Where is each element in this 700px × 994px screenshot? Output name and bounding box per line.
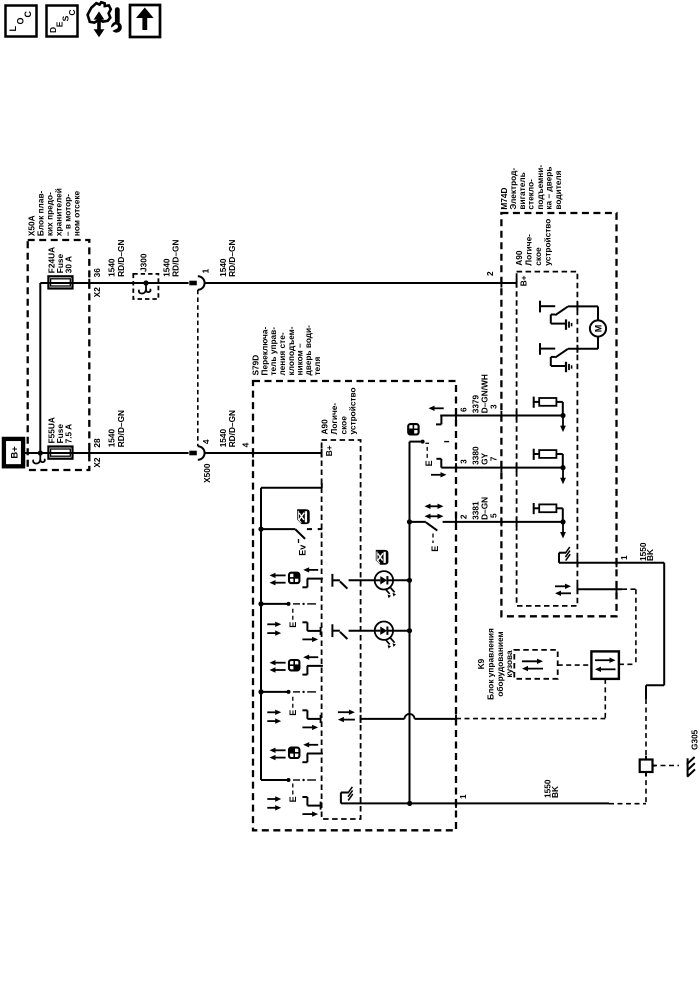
linkage row for switch B bbox=[410, 441, 423, 443]
icon arrows window down bbox=[274, 749, 286, 751]
label 1550 BK bbox=[638, 542, 655, 561]
svg-text:E: E bbox=[424, 460, 434, 466]
icon up-arrow button bbox=[130, 5, 160, 37]
wire relay to motor bbox=[568, 305, 598, 307]
svg-text:G305: G305 bbox=[690, 729, 700, 750]
label 1540 RD/D-GN bbox=[107, 240, 126, 277]
wire 3380 GY bbox=[441, 467, 563, 469]
svg-text:кузова: кузова bbox=[504, 650, 514, 678]
svg-text:E: E bbox=[430, 546, 440, 552]
logic device A90 of M74D dashed box bbox=[517, 272, 578, 606]
label E linkage bbox=[432, 534, 434, 544]
pin tick B+ into A90 bbox=[516, 279, 518, 288]
svg-text:1: 1 bbox=[619, 555, 629, 560]
wire 3379 D-GN/WH bbox=[440, 415, 563, 417]
icon LOC button bbox=[6, 6, 37, 37]
svg-text:RD/D–GN: RD/D–GN bbox=[116, 240, 126, 277]
gateway box with arrows bbox=[591, 651, 619, 679]
svg-text:ка – дверь: ка – дверь bbox=[543, 167, 553, 210]
switch contact window-up row bbox=[308, 569, 319, 571]
connector X500 pin 4 bbox=[189, 451, 197, 456]
dashed wire from gateway down bbox=[604, 679, 606, 719]
switch contact Ev row bbox=[258, 527, 263, 532]
svg-text:A90: A90 bbox=[319, 419, 329, 435]
wire 1540 RD/D-GN from F55UA bbox=[40, 452, 188, 454]
logic device A90 of S79D dashed box bbox=[322, 440, 361, 819]
pin 28 connector X2 bbox=[92, 438, 102, 468]
switch LED driver bbox=[331, 624, 333, 637]
svg-text:E: E bbox=[288, 622, 298, 628]
switch contact window-down row bbox=[302, 796, 307, 798]
wire right bus of S79D bbox=[409, 442, 411, 804]
connector X500 boundary dashed bbox=[197, 290, 199, 446]
svg-text:RD/D–GN: RD/D–GN bbox=[227, 410, 237, 447]
switch contact window-down row bbox=[302, 709, 307, 711]
switch S79D window control dashed box bbox=[253, 381, 456, 830]
pin tick M74D edge bbox=[500, 279, 502, 288]
svg-text:B+: B+ bbox=[519, 275, 529, 286]
dashed wire to G305 bbox=[652, 765, 679, 767]
pin tick B+ into A90 of S79D bbox=[321, 449, 323, 458]
wire 1540 RD/D-GN to M74D pin 2 bbox=[204, 282, 517, 284]
LED lamp bbox=[349, 579, 375, 581]
svg-text:30 A: 30 A bbox=[64, 256, 74, 273]
linkage dash-dot row bbox=[258, 689, 263, 694]
wire to bus bbox=[393, 630, 409, 632]
wire hop over bus bbox=[405, 714, 415, 719]
label K9 bbox=[476, 628, 514, 700]
svg-text:Блок управления: Блок управления bbox=[486, 628, 496, 700]
icon arrows window down bbox=[274, 662, 286, 664]
icon arrows auto up/down bbox=[429, 505, 439, 507]
ground G305 bbox=[687, 757, 695, 777]
svg-text:K9: K9 bbox=[476, 658, 486, 669]
switch up contact (wire 3379) bbox=[433, 407, 444, 409]
svg-text:X2: X2 bbox=[92, 457, 102, 468]
LED lamp bbox=[349, 630, 375, 632]
label Ev + linkage bbox=[298, 539, 300, 543]
svg-text:E: E bbox=[288, 710, 298, 716]
svg-text:C: C bbox=[23, 11, 33, 18]
svg-text:36: 36 bbox=[92, 268, 102, 278]
svg-text:B+: B+ bbox=[324, 445, 334, 456]
wire 1550 BK bottom bbox=[456, 802, 609, 804]
motor M bbox=[590, 320, 606, 336]
ground bbox=[565, 362, 567, 372]
ground output 1550 inside M74D bbox=[558, 553, 560, 563]
label 3381 D-GN bbox=[471, 497, 490, 520]
switch LED driver bbox=[331, 574, 333, 587]
label S79D bbox=[251, 325, 322, 376]
svg-text:водителя: водителя bbox=[553, 170, 563, 209]
ground bbox=[565, 319, 567, 329]
pin tick S79D edge bbox=[252, 449, 254, 458]
svg-text:RD/D–GN: RD/D–GN bbox=[171, 240, 181, 277]
svg-text:2: 2 bbox=[458, 514, 468, 519]
label 1540 RD/D-GN bbox=[218, 410, 237, 447]
svg-text:B+: B+ bbox=[9, 446, 20, 459]
node splice at B+ bus bbox=[38, 450, 43, 455]
relay contact SPDT bbox=[539, 301, 541, 313]
switch down contact (wire 3380) bbox=[436, 458, 441, 460]
label 1550 BK bbox=[543, 779, 560, 798]
motor M74D window lift dashed box bbox=[501, 213, 616, 616]
label M74D bbox=[499, 165, 563, 210]
dashed wire below connector bbox=[645, 772, 647, 804]
connector inline bbox=[640, 760, 653, 773]
label 3380 GY bbox=[471, 446, 490, 465]
svg-text:X2: X2 bbox=[92, 287, 102, 298]
icon arrows window up bbox=[267, 798, 276, 800]
dashed wire to K9 bbox=[622, 588, 636, 590]
label 1540 RD/D-GN bbox=[107, 410, 126, 447]
svg-text:L: L bbox=[8, 26, 18, 32]
svg-text:C: C bbox=[67, 9, 77, 15]
svg-text:5: 5 bbox=[488, 513, 498, 518]
svg-text:RD/D–GN: RD/D–GN bbox=[227, 240, 237, 277]
wire 1550 BK down bbox=[663, 563, 665, 686]
wire 1540 RD/D-GN from F24UA bbox=[40, 282, 188, 284]
icon arrows window up bbox=[267, 711, 276, 713]
resistor sense bbox=[533, 449, 535, 460]
svg-text:2: 2 bbox=[485, 271, 495, 276]
icon window pane bbox=[289, 660, 300, 671]
wire to bus bbox=[393, 579, 409, 581]
wire 1540 RD/D-GN to S79D pin 4 bbox=[204, 452, 322, 454]
resistor sense bbox=[533, 397, 535, 408]
svg-text:E: E bbox=[288, 796, 298, 802]
icon window auto-down above LED bbox=[376, 550, 389, 565]
switch contact window-down row bbox=[302, 621, 307, 623]
wire supply bus vertical bbox=[39, 283, 41, 453]
svg-text:Ev: Ev bbox=[298, 545, 308, 556]
resistor sense bbox=[533, 503, 535, 514]
svg-text:RD/D–GN: RD/D–GN bbox=[116, 410, 126, 447]
svg-text:X500: X500 bbox=[202, 463, 212, 483]
icon window pane bbox=[289, 572, 300, 583]
svg-text:7.5 A: 7.5 A bbox=[64, 424, 74, 444]
svg-text:устройство: устройство bbox=[542, 219, 552, 266]
icon arrows window up bbox=[267, 623, 276, 625]
svg-text:7: 7 bbox=[488, 456, 498, 461]
icon car-adjust with wrench bbox=[88, 2, 122, 37]
icon window pane bbox=[289, 747, 300, 758]
battery positive voltage B+ bbox=[4, 439, 23, 466]
label A90 bbox=[514, 219, 552, 266]
icon window pane bbox=[408, 424, 419, 435]
wire to BCM with arrows bbox=[555, 585, 567, 587]
svg-text:устройство: устройство bbox=[347, 387, 357, 434]
fuse F55UA 7.5A bbox=[48, 447, 72, 459]
ground return row inside A90 bbox=[340, 793, 342, 804]
svg-text:BK: BK bbox=[550, 786, 560, 798]
relay contact SPDT bbox=[539, 343, 541, 355]
svg-text:теля: теля bbox=[312, 357, 322, 376]
label F24UA bbox=[47, 247, 74, 273]
label 3379 D-GN/WH bbox=[471, 374, 490, 413]
wire 3381 D-GN bbox=[443, 521, 564, 523]
svg-text:M: M bbox=[593, 325, 603, 333]
icon arrows window down bbox=[274, 574, 286, 576]
splice J300 dashed box bbox=[133, 274, 158, 299]
switch contact window-up row bbox=[308, 656, 319, 658]
label A90 bbox=[319, 387, 357, 434]
icon arrows data K9 bbox=[522, 660, 539, 662]
fuse block X50A (underhood) dashed box bbox=[28, 240, 90, 470]
wire ladder bus S79D bbox=[260, 488, 262, 780]
svg-text:4: 4 bbox=[241, 442, 251, 447]
pin 36 connector X2 bbox=[92, 268, 102, 298]
svg-text:ном отсеке: ном отсеке bbox=[71, 190, 81, 236]
fuse F24UA 30A bbox=[48, 276, 72, 288]
svg-text:O: O bbox=[16, 17, 26, 24]
dashed link to gateway bbox=[558, 664, 592, 666]
svg-text:6: 6 bbox=[458, 407, 468, 412]
label 1540 RD/D-GN bbox=[162, 240, 181, 277]
switch contact window-up row bbox=[308, 744, 319, 746]
label 1540 RD/D-GN bbox=[218, 240, 237, 277]
linkage dash-dot row bbox=[258, 601, 263, 606]
wire B+ feed to bus bbox=[23, 452, 41, 454]
dashed wire to connector bbox=[645, 699, 647, 759]
icon window auto-down bbox=[297, 509, 310, 524]
connector X500 pin 1 (male/female) bbox=[189, 281, 197, 286]
icon DESC button bbox=[47, 6, 78, 37]
linkage dash-dot row bbox=[261, 779, 289, 781]
svg-text:3: 3 bbox=[458, 459, 468, 464]
svg-text:BK: BK bbox=[645, 549, 655, 561]
svg-text:1: 1 bbox=[200, 268, 210, 273]
wire 1550 BK bbox=[559, 562, 664, 564]
switch contact (wire 3381) bbox=[407, 519, 412, 524]
label X50A bbox=[26, 188, 81, 236]
wire row to A90 bbox=[261, 487, 322, 489]
BCM K9 dashed box bbox=[514, 650, 557, 679]
svg-text:J300: J300 bbox=[138, 253, 148, 272]
svg-text:1: 1 bbox=[458, 794, 468, 799]
svg-text:4: 4 bbox=[201, 439, 211, 444]
wire pass-through row with arrows bbox=[338, 711, 351, 713]
node splice J300 bbox=[143, 280, 148, 285]
svg-text:28: 28 bbox=[92, 438, 102, 448]
svg-text:3: 3 bbox=[488, 404, 498, 409]
label F55UA bbox=[47, 417, 74, 443]
